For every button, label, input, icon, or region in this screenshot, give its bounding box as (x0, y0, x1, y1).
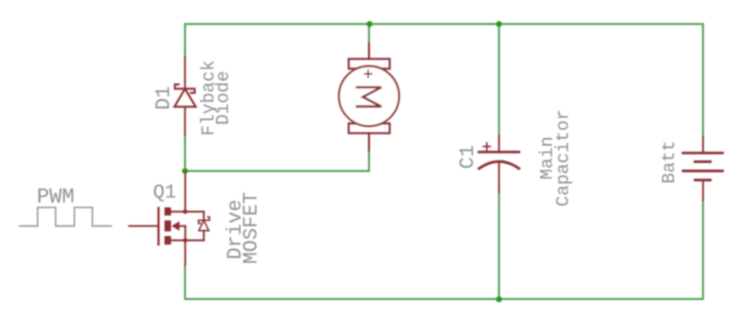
svg-text:C1: C1 (457, 145, 480, 169)
svg-text:Batt: Batt (660, 140, 680, 183)
svg-text:Capacitor: Capacitor (554, 109, 574, 206)
svg-text:MOSFET: MOSFET (240, 192, 263, 264)
svg-text:D1: D1 (153, 86, 176, 110)
svg-text:Q1: Q1 (153, 181, 176, 203)
svg-text:Diode: Diode (214, 71, 234, 125)
svg-text:PWM: PWM (37, 187, 75, 210)
